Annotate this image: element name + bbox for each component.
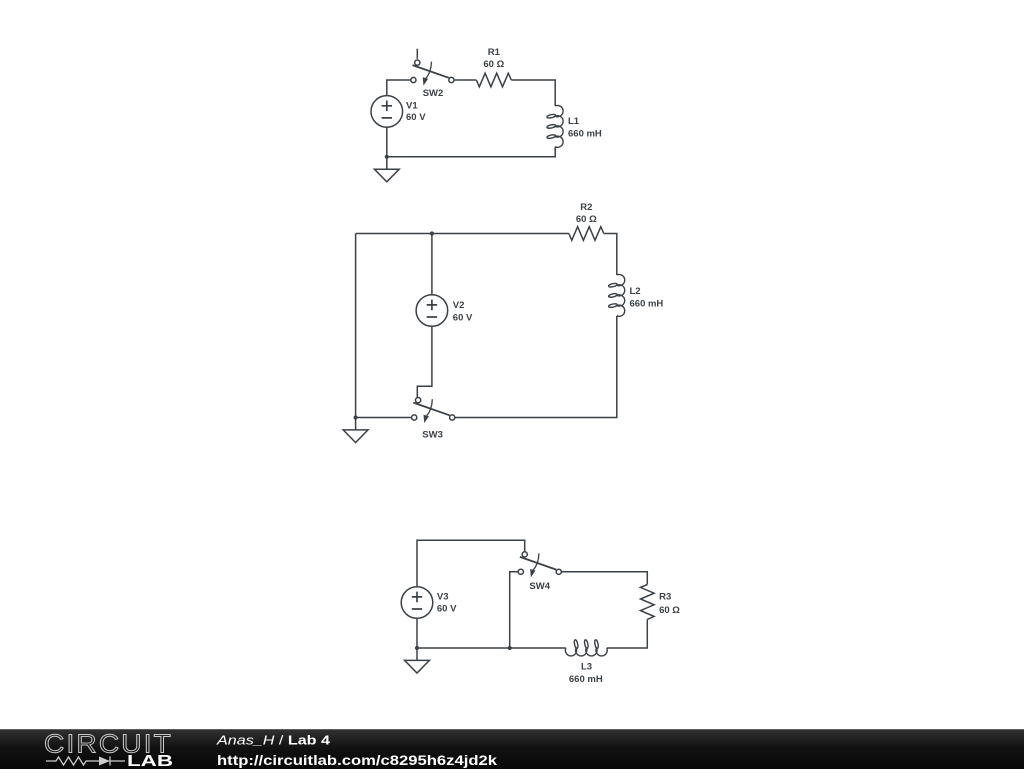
svg-text:660 mH: 660 mH [630, 299, 664, 310]
svg-text:60 Ω: 60 Ω [576, 214, 597, 225]
svg-text:SW3: SW3 [422, 430, 443, 441]
svg-text:R3: R3 [659, 592, 671, 603]
svg-text:60 Ω: 60 Ω [483, 59, 504, 70]
svg-text:Anas_H / Lab 4: Anas_H / Lab 4 [216, 732, 331, 747]
wire V3 top to SW4 [417, 540, 525, 587]
svg-text:660 mH: 660 mH [569, 674, 603, 685]
wire bottom left circuit 2 [356, 417, 412, 419]
logo resistor-diode doodle [46, 757, 125, 766]
inductor L2 [608, 275, 624, 317]
wire V1 top to SW2 [387, 80, 411, 96]
svg-text:L3: L3 [581, 662, 592, 673]
inductor L3 [565, 639, 607, 655]
svg-text:660 mH: 660 mH [568, 129, 602, 140]
resistor R1 [476, 73, 511, 87]
voltage source V1 [371, 96, 403, 128]
svg-text:R2: R2 [580, 202, 592, 213]
svg-text:60 V: 60 V [453, 313, 473, 324]
svg-text:V3: V3 [437, 592, 449, 603]
switch SW4 [518, 552, 561, 578]
wire SW2 top stub [416, 49, 418, 59]
wire V2 top [431, 234, 433, 295]
node junction SW4 bottom [508, 646, 512, 650]
inductor L1 [547, 106, 563, 148]
svg-text:http://circuitlab.com/c8295h6z: http://circuitlab.com/c8295h6z4jd2k [217, 752, 497, 768]
wire SW4 left to bottom rail [510, 572, 519, 648]
wire R2 to L2 [604, 234, 617, 276]
svg-text:60 Ω: 60 Ω [659, 605, 680, 616]
resistor R2 [569, 227, 604, 241]
node junction V2 top [430, 231, 434, 235]
wire L2 to SW3 right [454, 316, 617, 418]
ground circuit 1 [374, 155, 399, 182]
ground circuit 3 [405, 646, 430, 673]
wire top rail circuit 2 [356, 233, 569, 235]
wire V3 bottom [416, 618, 418, 648]
wire R1 to L1 [511, 80, 555, 106]
wire SW4 right to R3 [561, 572, 647, 585]
wire left rail circuit 2 [355, 234, 357, 418]
switch SW2 [411, 60, 454, 86]
svg-text:SW4: SW4 [529, 581, 550, 592]
wire bottom rail circuit 3 [417, 647, 566, 649]
svg-text:V2: V2 [453, 300, 465, 311]
svg-text:LAB: LAB [127, 753, 173, 769]
svg-text:60 V: 60 V [406, 112, 426, 123]
svg-text:R1: R1 [488, 47, 501, 58]
svg-text:L1: L1 [568, 116, 580, 127]
footer bar [0, 729, 1024, 769]
ground circuit 2 [343, 415, 368, 442]
svg-text:60 V: 60 V [437, 603, 457, 614]
voltage source V2 [416, 295, 448, 327]
wire V2 bottom to SW3 [417, 326, 432, 398]
voltage source V3 [401, 587, 433, 619]
wire L1 bottom to V1 bottom [387, 127, 555, 157]
resistor R3 [641, 585, 655, 620]
svg-text:L2: L2 [630, 286, 641, 297]
wire R3 to L3 [607, 619, 648, 648]
wire SW2 to R1 [454, 79, 476, 81]
switch SW3 [412, 398, 455, 424]
svg-text:SW2: SW2 [423, 88, 444, 99]
svg-text:V1: V1 [406, 101, 418, 112]
